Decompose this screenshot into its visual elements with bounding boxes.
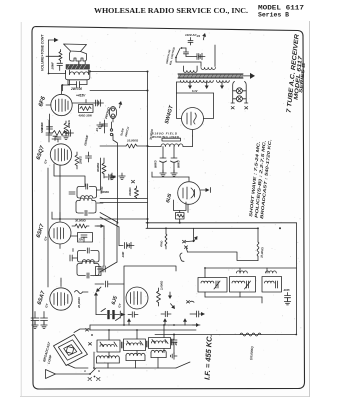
ground near phono [97,122,103,128]
speaker SP [64,44,87,65]
tube 5W4GT rectifier [182,108,204,130]
tube 6U5 magic eye [178,177,201,204]
grid resistor above 6SQ7 [63,119,71,139]
diode load cap with arrow [104,174,135,183]
RF coil row1 L3 [149,338,171,349]
trimmer caps between coils [122,339,174,348]
detector plate network left of bus [95,120,108,133]
10000 ohm resistor in B+ feed [100,139,149,149]
grid cap row above coils [128,311,171,317]
filter electrolytic cap 1 [154,147,167,177]
AVC feed diagonals [100,213,119,273]
svg-text:1MEG: 1MEG [79,155,83,164]
cathode cap 6SK7 [71,233,93,243]
osc grid squiggle right of 6SA7 [75,291,99,310]
svg-text:.01: .01 [95,128,99,132]
caps above 6SQ7 [40,120,61,142]
svg-text:8MFD: 8MFD [154,160,158,168]
AC line cap and label top [185,33,207,45]
5W4GT filament wires [192,130,194,136]
cap right of 6SQ7 [83,134,92,162]
tube 6SA7 [50,281,72,310]
grounds mid column [109,173,125,179]
svg-text:.01MF: .01MF [40,122,44,130]
B+ wire from speaker field note [152,132,179,140]
ground flag right of transformer [243,73,255,79]
svg-text:.05MF: .05MF [51,62,55,70]
IF transformer T3 secondary loop [76,198,96,216]
svg-text:G: G [98,370,100,373]
tube 6SK7 [49,213,71,245]
filter choke (speaker field) [148,136,193,147]
tube 6SQ7 [50,144,85,219]
antenna symbol [46,370,91,379]
wirewound resistor at bus [159,228,167,249]
loop to coil wire [0,0,1,1]
4300 ohm resistor vertical [128,186,139,199]
antenna coil row2 L4 [97,356,120,363]
arrows on bus [127,318,187,325]
svg-text:400Ω 10W: 400Ω 10W [78,114,93,118]
wire 6SK7 plate to T3 [59,245,61,249]
screen resistor right of 6SK7 horizontal [72,219,104,229]
antenna switch contacts [83,368,100,381]
6U5 socket shell [174,200,187,211]
7 tube receiver title [286,33,307,113]
arrow on bus [193,323,200,327]
wire speaker to plate of 6F6 [49,62,79,74]
T1 heater winding [217,81,230,83]
phono jack [104,101,123,122]
line cord resistor squiggle on bus [240,333,261,336]
power transformer T1 core [178,73,243,78]
svg-text:20,000Ω: 20,000Ω [77,296,81,309]
bias cap and resistor below 6F6 [40,114,74,141]
capacitor across voice coil [68,80,87,88]
power transformer T1 primary [176,45,215,72]
IF transformer T2if secondary loop [77,261,99,278]
cap and ground mid (.1MF) [119,242,134,258]
6J5 box [124,266,176,315]
svg-text:.05: .05 [174,342,178,346]
6U5 target ground flag [200,188,210,193]
6U5 grid wire [152,172,189,177]
output transformer T2 core [66,65,90,70]
osc section interconnects [124,268,297,325]
osc coil top bumps A [237,271,248,273]
diode load resistor right of 6SQ7 [75,152,83,169]
AVC arrow near 6J5 [168,292,172,299]
osc coil box A [198,278,227,293]
tone control arrow and pot top left [46,38,62,74]
svg-text:300MΩ: 300MΩ [96,162,100,172]
osc coil bottom wire [205,292,262,303]
padder cap .0045 [283,288,291,305]
cathode network right of 6F6 [72,94,103,118]
svg-text:A: A [83,370,86,373]
5W4GT plate wires from HV winding [177,82,214,119]
2000 ohm resistor right of 6J5 [157,280,164,306]
svg-text:8MFD: 8MFD [177,160,181,168]
svg-text:2W/700: 2W/700 [70,87,82,91]
svg-text:25V: 25V [78,238,84,242]
output stage top wires [63,71,149,92]
wire 6SA7 to IF2 secondary [60,278,62,281]
T1 center tap arrows [188,82,224,93]
6U5 cathode wire [187,204,189,212]
label 6SK7 [36,223,49,242]
osc coil top bumps B [266,271,277,273]
svg-text:4300Ω: 4300Ω [128,187,132,197]
wire 6SQ7 cathode down [47,168,49,287]
band coverage note [248,139,272,219]
buses above coil row [90,325,296,335]
small box left [96,267,102,276]
label 6SA7 [37,290,50,309]
broadcast loop antenna [50,330,92,370]
svg-text:.0045: .0045 [283,288,290,292]
B+ bus vertical x=147.5 [147,72,149,229]
band switch contact marks left of coils [86,329,93,346]
svg-text:+415V: +415V [76,94,86,98]
pilot lamps [231,82,248,110]
schematic border [32,27,305,390]
IF transformer T3 primary loop [77,184,97,198]
AVC vertical wire [113,134,118,223]
scan speckle texture [34,31,301,387]
svg-text:Series B: Series B [258,12,289,19]
slide switch [110,122,130,137]
osc injection cap with arrow [169,302,205,317]
label 6J5 [111,295,123,308]
svg-text:VOLUME+TONE CONT: VOLUME+TONE CONT [41,34,45,71]
svg-text:WHOLESALE RADIO SERVICE CO., I: WHOLESALE RADIO SERVICE CO., INC. [94,6,248,15]
bus up right corner [296,223,298,335]
RF coil row2 L6 [151,350,166,357]
osc coil box C [262,277,282,293]
T2if side caps [70,255,105,272]
1 meg resistor box under 6U5 [176,211,185,223]
tube 6J5 oscillator [126,287,148,309]
tube 6F6 output [46,85,72,116]
loop lead wires [67,329,90,368]
osc padder caps below 6SA7 [96,299,126,321]
cap with ground on bus [171,335,178,360]
cathode caps below 6SA7 [31,312,48,329]
power switch on volume control [166,46,205,66]
wire 6SK7 plate to IF2 [72,249,74,252]
10000 ohm resistor vertical right [257,228,264,260]
label 6SQ7 [36,144,49,164]
filter electrolytic cap 2 [171,147,181,177]
coupling cap to 6F6 grid [51,62,63,71]
svg-text:.1MF: .1MF [121,251,125,258]
coil box connection stubs [96,325,190,368]
IF T3 to 100 bus wires [97,158,105,194]
heater bus horizontal y=228.5 [146,227,258,229]
svg-text:250Ω: 250Ω [159,240,164,248]
6F6 plate wire up to transformer [0,0,1,1]
loop feed wire [93,352,95,368]
screen bus horizontal y=223 [146,222,297,224]
label broadcast loop [42,341,53,365]
output transformer T2 secondary coil [66,70,90,80]
screen feed wire right [95,226,104,266]
AVC bus double horizontal [100,199,148,203]
antenna coil row1 L1 [97,340,120,352]
svg-text:MODEL 6117: MODEL 6117 [258,5,304,12]
AVC cap in wire [95,281,124,293]
T1 rectifier filament winding [201,81,214,83]
T3 couple caps [69,192,103,203]
wave switch [180,228,258,261]
RF coil row2 L5 [126,353,145,360]
osc switch contact top [187,301,195,304]
T1 HV secondary winding [181,81,200,83]
300M resistor vertical [96,158,106,178]
RF coil row1 L2 [124,339,146,351]
svg-text:2,000Ω: 2,000Ω [160,280,164,291]
IF transformer T2if primary loop [78,248,100,262]
osc coil box B [230,277,256,293]
svg-text:2MEG: 2MEG [67,119,71,129]
svg-text:.01: .01 [196,34,201,38]
svg-text:6.3V: 6.3V [192,89,198,93]
heater wire left [52,212,148,219]
svg-text:10,000Ω: 10,000Ω [127,139,139,143]
